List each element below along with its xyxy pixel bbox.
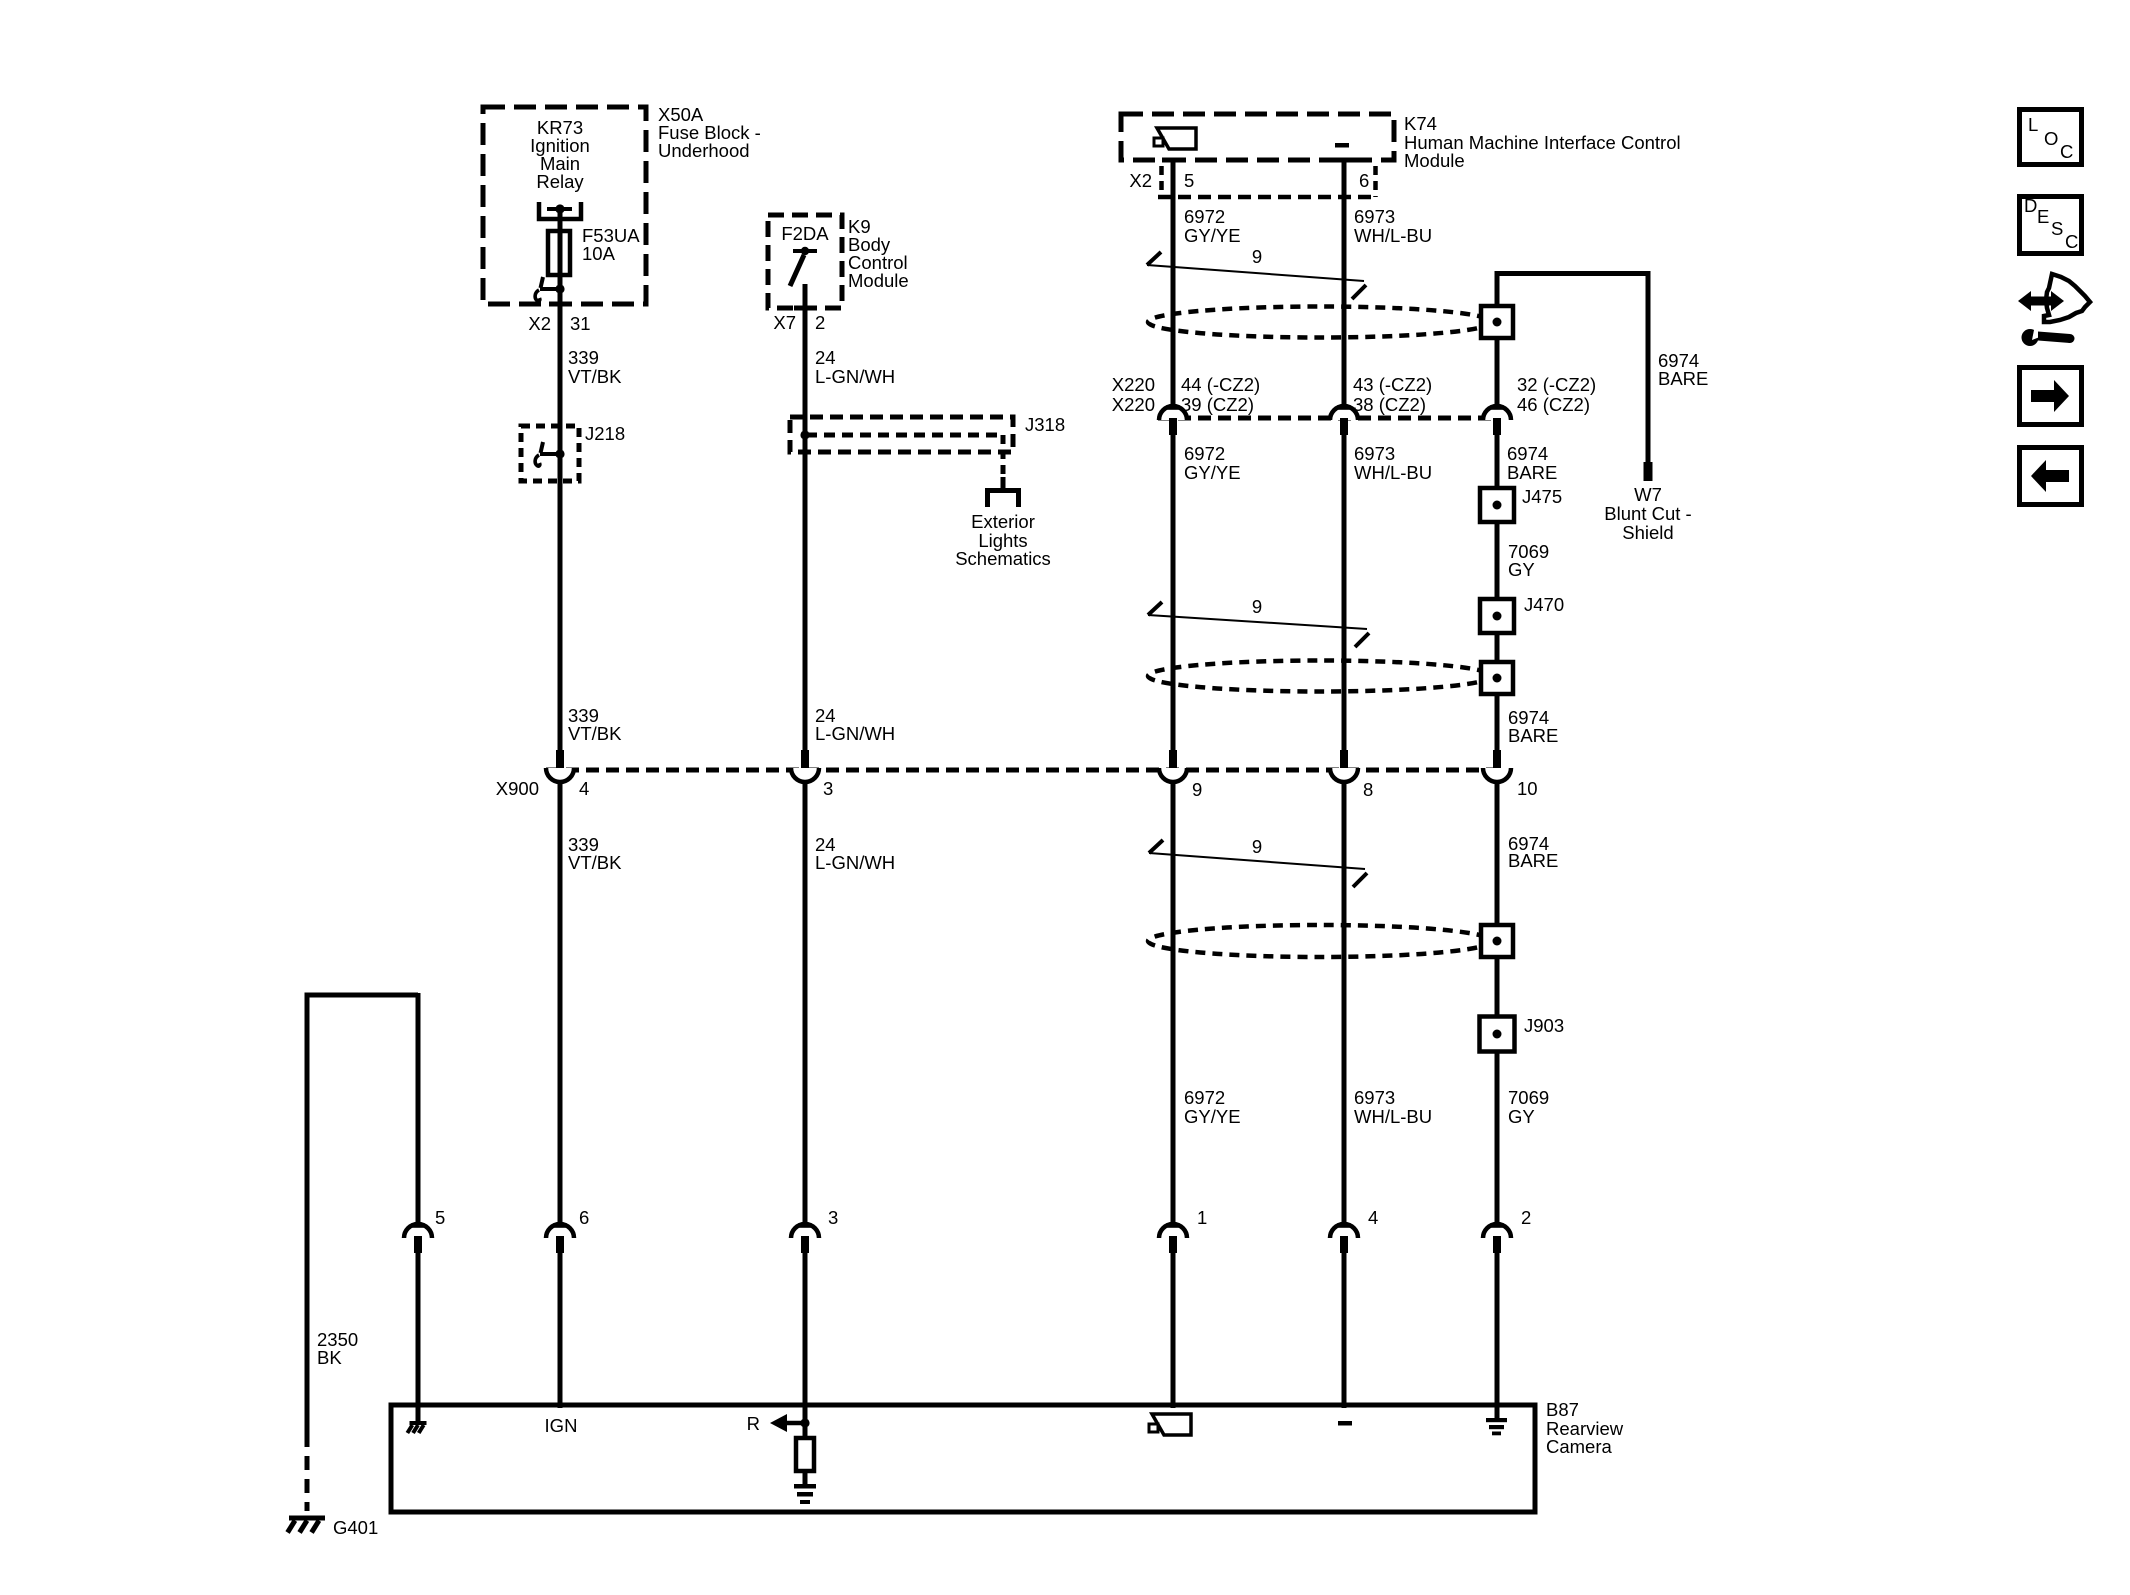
svg-text:7069: 7069: [1508, 1087, 1549, 1108]
svg-text:3: 3: [823, 778, 833, 799]
svg-text:Camera: Camera: [1546, 1436, 1613, 1457]
svg-text:BK: BK: [317, 1347, 342, 1368]
svg-text:GY: GY: [1508, 1106, 1535, 1127]
svg-text:S: S: [2051, 218, 2063, 239]
svg-text:Shield: Shield: [1622, 522, 1673, 543]
svg-text:9: 9: [1192, 779, 1202, 800]
svg-text:4: 4: [579, 778, 589, 799]
svg-text:C: C: [2060, 141, 2073, 162]
svg-text:43 (-CZ2): 43 (-CZ2): [1353, 374, 1432, 395]
svg-text:VT/BK: VT/BK: [568, 852, 622, 873]
svg-text:VT/BK: VT/BK: [568, 723, 622, 744]
svg-text:2: 2: [1521, 1207, 1531, 1228]
svg-text:5: 5: [435, 1207, 445, 1228]
svg-text:46 (CZ2): 46 (CZ2): [1517, 394, 1590, 415]
svg-text:BARE: BARE: [1508, 725, 1558, 746]
svg-text:X900: X900: [496, 778, 539, 799]
svg-text:6972: 6972: [1184, 1087, 1225, 1108]
svg-text:6974: 6974: [1507, 443, 1548, 464]
svg-text:BARE: BARE: [1507, 462, 1557, 483]
svg-text:39 (CZ2): 39 (CZ2): [1181, 394, 1254, 415]
svg-text:L-GN/WH: L-GN/WH: [815, 723, 895, 744]
svg-text:8: 8: [1363, 779, 1373, 800]
svg-text:2: 2: [815, 312, 825, 333]
svg-text:WH/L-BU: WH/L-BU: [1354, 1106, 1432, 1127]
svg-text:GY: GY: [1508, 559, 1535, 580]
svg-text:5: 5: [1184, 170, 1194, 191]
svg-text:6972: 6972: [1184, 206, 1225, 227]
svg-text:G401: G401: [333, 1517, 378, 1538]
svg-text:VT/BK: VT/BK: [568, 366, 622, 387]
svg-text:J470: J470: [1524, 594, 1564, 615]
svg-text:BARE: BARE: [1658, 368, 1708, 389]
svg-text:GY/YE: GY/YE: [1184, 462, 1241, 483]
svg-text:Blunt Cut -: Blunt Cut -: [1604, 503, 1691, 524]
svg-text:Module: Module: [1404, 150, 1465, 171]
svg-text:J218: J218: [585, 423, 625, 444]
svg-text:31: 31: [570, 313, 591, 334]
svg-text:24: 24: [815, 347, 836, 368]
svg-text:L-GN/WH: L-GN/WH: [815, 366, 895, 387]
svg-text:Exterior: Exterior: [971, 511, 1035, 532]
svg-text:R: R: [747, 1413, 760, 1434]
svg-text:6973: 6973: [1354, 206, 1395, 227]
svg-text:X220: X220: [1112, 374, 1155, 395]
svg-text:38 (CZ2): 38 (CZ2): [1353, 394, 1426, 415]
svg-text:9: 9: [1252, 836, 1262, 857]
svg-text:9: 9: [1252, 596, 1262, 617]
svg-text:X2: X2: [1129, 170, 1152, 191]
svg-text:B87: B87: [1546, 1399, 1579, 1420]
svg-text:3: 3: [828, 1207, 838, 1228]
svg-text:44 (-CZ2): 44 (-CZ2): [1181, 374, 1260, 395]
svg-text:WH/L-BU: WH/L-BU: [1354, 462, 1432, 483]
svg-text:6972: 6972: [1184, 443, 1225, 464]
svg-text:6973: 6973: [1354, 443, 1395, 464]
svg-text:32 (-CZ2): 32 (-CZ2): [1517, 374, 1596, 395]
svg-text:IGN: IGN: [545, 1415, 578, 1436]
svg-text:WH/L-BU: WH/L-BU: [1354, 225, 1432, 246]
svg-text:O: O: [2044, 128, 2058, 149]
svg-text:Schematics: Schematics: [955, 548, 1051, 569]
svg-text:X220: X220: [1112, 394, 1155, 415]
svg-text:J318: J318: [1025, 414, 1065, 435]
svg-text:L: L: [2028, 114, 2038, 135]
svg-text:BARE: BARE: [1508, 850, 1558, 871]
svg-text:1: 1: [1197, 1207, 1207, 1228]
svg-text:W7: W7: [1634, 484, 1662, 505]
svg-text:GY/YE: GY/YE: [1184, 225, 1241, 246]
svg-text:J475: J475: [1522, 486, 1562, 507]
svg-text:D: D: [2024, 195, 2037, 216]
svg-text:X7: X7: [773, 312, 796, 333]
svg-text:F2DA: F2DA: [781, 223, 829, 244]
svg-text:4: 4: [1368, 1207, 1378, 1228]
svg-text:L-GN/WH: L-GN/WH: [815, 852, 895, 873]
svg-text:10A: 10A: [582, 243, 616, 264]
svg-text:E: E: [2037, 206, 2049, 227]
svg-text:9: 9: [1252, 246, 1262, 267]
svg-text:X2: X2: [528, 313, 551, 334]
svg-text:Underhood: Underhood: [658, 140, 750, 161]
svg-text:GY/YE: GY/YE: [1184, 1106, 1241, 1127]
svg-text:339: 339: [568, 347, 599, 368]
svg-text:K74: K74: [1404, 113, 1437, 134]
svg-text:Module: Module: [848, 270, 909, 291]
svg-text:10: 10: [1517, 778, 1538, 799]
svg-text:6: 6: [579, 1207, 589, 1228]
svg-text:C: C: [2065, 231, 2078, 252]
svg-text:J903: J903: [1524, 1015, 1564, 1036]
svg-text:6973: 6973: [1354, 1087, 1395, 1108]
svg-text:Relay: Relay: [536, 171, 584, 192]
svg-text:6: 6: [1359, 170, 1369, 191]
